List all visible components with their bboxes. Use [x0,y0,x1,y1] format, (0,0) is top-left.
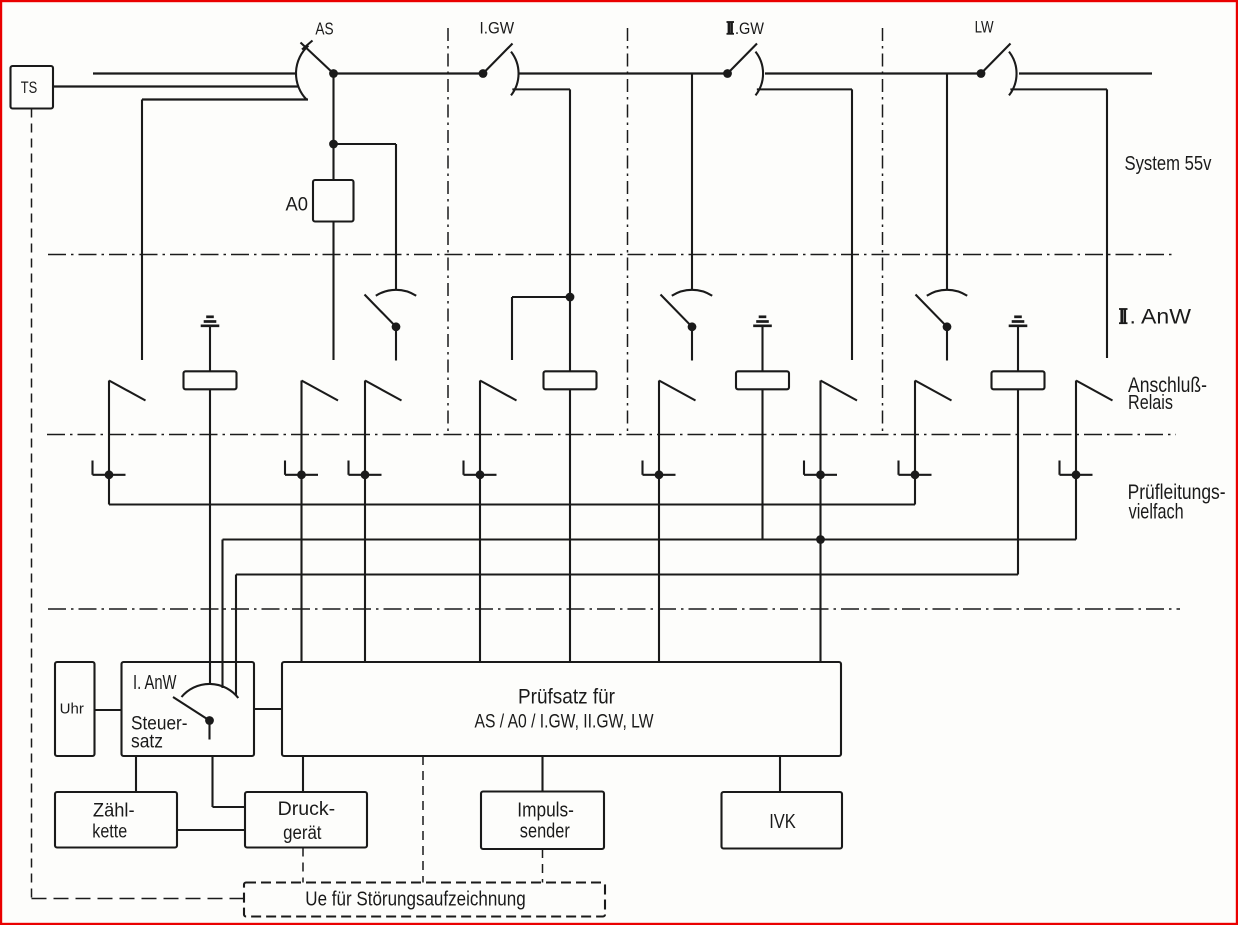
svg-text:I.GW: I.GW [480,19,515,37]
svg-text:.GW: .GW [735,20,764,38]
svg-text:Uhr: Uhr [60,701,84,718]
svg-text:System 55v: System 55v [1125,152,1213,175]
svg-text:TS: TS [21,79,38,97]
svg-text:. AnW: . AnW [1130,306,1192,329]
svg-text:gerät: gerät [283,823,322,844]
svg-text:LW: LW [975,19,994,37]
svg-text:AS / A0 / I.GW, II.GW, LW: AS / A0 / I.GW, II.GW, LW [475,711,654,733]
svg-text:I. AnW: I. AnW [133,672,177,694]
svg-text:A0: A0 [286,195,309,216]
svg-text:sender: sender [520,821,570,843]
svg-text:Impuls-: Impuls- [517,800,574,822]
svg-text:Relais: Relais [1128,392,1173,414]
svg-text:AS: AS [315,18,333,38]
svg-text:IVK: IVK [769,811,796,833]
svg-text:Druck-: Druck- [278,799,336,820]
svg-text:Zähl-: Zähl- [93,799,135,821]
svg-text:Prüfsatz für: Prüfsatz für [518,686,615,709]
svg-text:vielfach: vielfach [1129,501,1184,524]
svg-text:satz: satz [131,732,163,753]
svg-text:Ue für Störungsaufzeichnung: Ue für Störungsaufzeichnung [305,888,525,911]
svg-text:kette: kette [92,820,127,842]
